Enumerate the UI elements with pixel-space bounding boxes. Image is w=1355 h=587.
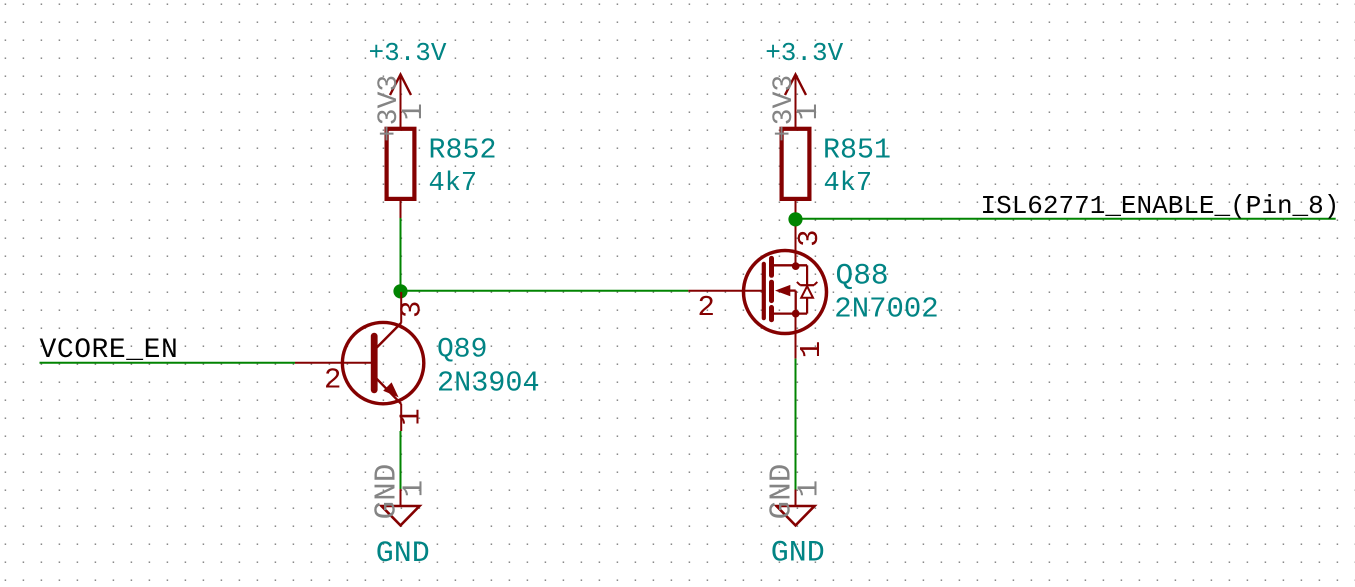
svg-text:1: 1 xyxy=(395,408,428,425)
svg-text:+3V3: +3V3 xyxy=(769,75,800,142)
svg-text:4k7: 4k7 xyxy=(429,169,478,199)
svg-text:2: 2 xyxy=(698,291,715,324)
junction node (right) xyxy=(788,212,802,226)
junction node (left) xyxy=(393,284,407,298)
pin: resistor R852 bottom pin xyxy=(400,199,402,218)
svg-text:Q89: Q89 xyxy=(437,335,487,366)
svg-text:1: 1 xyxy=(793,480,826,497)
svg-text:3: 3 xyxy=(396,301,429,318)
transistor Q88 (N-MOSFET 2N7002) xyxy=(688,251,826,359)
svg-text:Q88: Q88 xyxy=(836,259,889,293)
svg-text:2N7002: 2N7002 xyxy=(834,293,938,326)
svg-text:+3.3V: +3.3V xyxy=(765,38,843,68)
svg-text:GND: GND xyxy=(771,537,825,571)
svg-text:1: 1 xyxy=(398,480,431,497)
svg-text:1: 1 xyxy=(795,341,828,358)
transistor Q89 (NPN 2N3904) xyxy=(295,292,424,431)
wire: Q88 source to GND (vertical) xyxy=(795,359,797,490)
ground symbol (right) xyxy=(777,490,815,526)
wire: VCORE_EN to Q89 base xyxy=(40,362,296,364)
wire: Q89 emitter to GND (vertical) xyxy=(400,431,402,489)
svg-text:+3.3V: +3.3V xyxy=(369,38,447,68)
resistor R852 xyxy=(387,129,415,199)
pin: resistor R851 bottom pin xyxy=(795,199,797,214)
wire: R852 to Q89 collector (vertical) xyxy=(400,218,402,292)
wire: Q89 collector to Q88 gate (horizontal) xyxy=(401,290,689,292)
pin: Q88 drain pin from junction xyxy=(795,214,797,266)
wire: junction to ISL62771 enable xyxy=(796,218,1336,220)
power symbol +3.3V (right) xyxy=(765,38,843,129)
power symbol +3.3V (left) xyxy=(369,38,447,129)
svg-text:2: 2 xyxy=(324,363,341,396)
resistor R851 xyxy=(782,129,810,199)
svg-text:R851: R851 xyxy=(823,135,891,167)
svg-text:R852: R852 xyxy=(429,135,497,167)
svg-text:4k7: 4k7 xyxy=(824,169,873,199)
svg-text:ISL62771_ENABLE_(Pin_8): ISL62771_ENABLE_(Pin_8) xyxy=(981,191,1340,221)
svg-text:GND: GND xyxy=(376,537,430,571)
svg-text:2N3904: 2N3904 xyxy=(437,366,540,399)
ground symbol (left) xyxy=(382,489,420,525)
svg-text:3: 3 xyxy=(793,229,826,246)
svg-text:VCORE_EN: VCORE_EN xyxy=(40,335,179,366)
svg-text:+3V3: +3V3 xyxy=(374,75,405,142)
